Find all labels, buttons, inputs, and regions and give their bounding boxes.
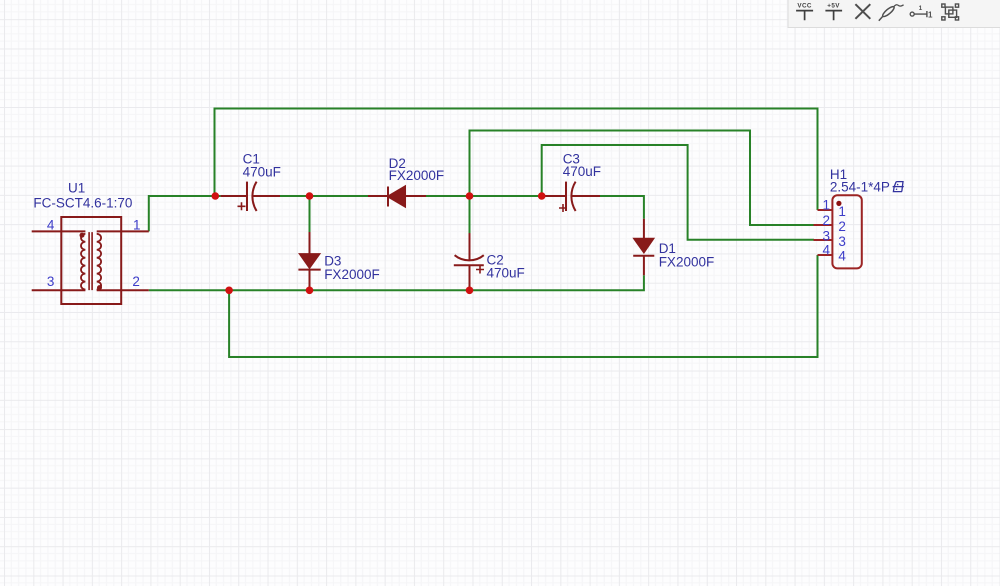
- toolbar icon no-connect X: [855, 4, 870, 19]
- label C1: [243, 152, 281, 180]
- toolbar icon pin: [910, 5, 933, 19]
- svg-text:FX2000F: FX2000F: [389, 168, 445, 183]
- wire: junction B drop to D3 anode: [309, 196, 311, 233]
- toolbar icon pen probe: [879, 5, 904, 21]
- svg-text:FX2000F: FX2000F: [659, 255, 715, 270]
- label D1: [659, 241, 715, 269]
- svg-text:1: 1: [133, 218, 141, 233]
- junction node G: C2 negative on lower rail: [466, 287, 474, 295]
- transformer U1: [32, 217, 149, 304]
- svg-text:2: 2: [838, 219, 846, 234]
- svg-text:2: 2: [822, 213, 830, 228]
- wire: transformer pin1 riser to main rail: [149, 196, 221, 231]
- svg-text:2.54-1*4P: 2.54-1*4P: [830, 180, 890, 195]
- label D2: [389, 156, 445, 183]
- svg-text:2: 2: [132, 274, 140, 289]
- svg-text:FC-SCT4.6-1:70: FC-SCT4.6-1:70: [33, 195, 132, 210]
- svg-text:FX2000F: FX2000F: [324, 267, 380, 282]
- svg-text:VCC: VCC: [797, 3, 812, 10]
- junction node F: D3 cathode on lower rail: [306, 287, 314, 295]
- U1 pin numbers: [47, 218, 141, 290]
- toolbar icon +5V: [825, 3, 842, 21]
- wire: main rail segment D2 right to C3 left: [426, 195, 545, 197]
- H1 pin numbers outside: [822, 198, 830, 258]
- svg-text:1: 1: [928, 10, 933, 19]
- wire: main rail segment C3 right, corner down to D1 top: [600, 196, 644, 219]
- connector H1: [814, 195, 862, 268]
- svg-text:3: 3: [47, 274, 55, 289]
- diode D3: [298, 232, 320, 289]
- svg-text:D3: D3: [324, 253, 341, 268]
- label H1: [830, 167, 904, 195]
- wire: net2 from junction C up-across-down to H1 pin2: [470, 131, 815, 226]
- label D3: [324, 253, 380, 282]
- svg-text:470uF: 470uF: [243, 164, 281, 179]
- junction node C: D2 / C2 / H1 pin2 net: [466, 192, 474, 200]
- svg-text:470uF: 470uF: [563, 164, 601, 179]
- wire: D1 bottom corner to lower rail back to transformer pin2: [149, 275, 644, 290]
- svg-text:4: 4: [838, 249, 846, 264]
- wire: junction C drop to C2 top: [469, 196, 471, 234]
- capacitor C3: [545, 182, 600, 212]
- svg-text:+5V: +5V: [827, 3, 840, 10]
- svg-text:U1: U1: [68, 180, 85, 195]
- svg-text:4: 4: [47, 218, 55, 233]
- junction node A: U1 pin1 / C1 / top wire: [212, 192, 220, 200]
- label C3: [563, 151, 601, 179]
- svg-text:1: 1: [919, 5, 923, 12]
- capacitor C1: [221, 182, 280, 211]
- label U1: [33, 180, 132, 210]
- svg-text:4: 4: [822, 243, 830, 258]
- wire: net1 top wire from junction A up and across to H1 pin1: [215, 109, 818, 211]
- diode D2: [368, 187, 426, 207]
- svg-text:470uF: 470uF: [487, 266, 525, 281]
- junction node B: C1 / D2 / D3: [306, 192, 314, 200]
- wire: main rail segment C1 right to D2 left: [280, 195, 368, 197]
- H1 pin numbers inside: [838, 204, 846, 263]
- wire: net3 from junction D up-across-down to H1 pin3: [542, 145, 814, 240]
- toolbar icon VCC: [796, 3, 813, 21]
- svg-text:3: 3: [822, 228, 830, 243]
- junction node D: C3 / H1 pin3 net: [538, 192, 546, 200]
- wire: bottom return wire to H1 pin4: [229, 255, 817, 357]
- label C2: [487, 253, 525, 281]
- svg-text:1: 1: [822, 198, 830, 213]
- toolbar panel: [788, 0, 1000, 28]
- svg-text:1: 1: [838, 204, 846, 219]
- diode D1: [633, 219, 654, 275]
- capacitor C2: [454, 233, 484, 289]
- junction node E: U1 pin2 / bottom return: [225, 287, 233, 295]
- svg-text:3: 3: [838, 234, 846, 249]
- toolbar icon netflag sheet: [942, 4, 959, 20]
